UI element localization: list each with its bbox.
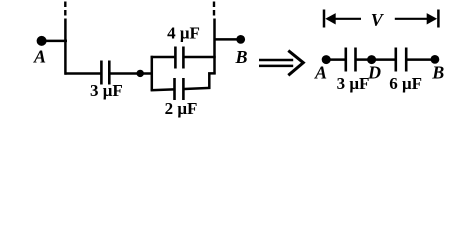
capacitor 3uF plates bbox=[100, 61, 103, 85]
wire to node B bbox=[214, 38, 238, 41]
V dimension right bar bbox=[437, 10, 440, 28]
wire right vertical lower jog bbox=[209, 73, 215, 89]
wire D to 6uF bbox=[373, 58, 395, 61]
svg-text:3 μF: 3 μF bbox=[90, 81, 123, 100]
node A (right circuit) bbox=[322, 55, 331, 64]
svg-text:4 μF: 4 μF bbox=[167, 24, 200, 43]
svg-text:D: D bbox=[367, 63, 381, 83]
wire 3uF to junction bbox=[110, 72, 138, 75]
node B (left circuit) bbox=[236, 35, 245, 44]
wire box bottom branch bbox=[151, 88, 174, 91]
svg-text:6 μF: 6 μF bbox=[389, 74, 422, 93]
node B (right circuit) bbox=[431, 55, 440, 64]
capacitor 4uF plates bbox=[174, 47, 177, 69]
wire junction to box bbox=[142, 72, 153, 75]
node D bbox=[367, 55, 376, 64]
wire 6uF to node B bbox=[407, 58, 431, 61]
capacitor 3uF plates (right circuit) bbox=[344, 48, 347, 72]
svg-text:A: A bbox=[33, 47, 46, 67]
capacitor 6uF plates bbox=[394, 48, 397, 72]
svg-text:A: A bbox=[314, 63, 327, 83]
V dimension right arrow bbox=[395, 18, 429, 20]
wire left vertical bbox=[64, 19, 67, 75]
wire 3uF to node D bbox=[357, 58, 369, 61]
V dimension left bar bbox=[323, 10, 326, 28]
wire A to 3uF bbox=[327, 58, 345, 61]
capacitor 2uF plates bbox=[173, 78, 176, 100]
wire right vertical dashed continuation bbox=[213, 2, 215, 8]
wire 2uF to box right corner bbox=[184, 88, 210, 89]
wire bottom left horizontal bbox=[65, 72, 101, 75]
wire box top branch bbox=[151, 56, 175, 59]
wire A to left vertical bbox=[44, 40, 67, 43]
svg-text:V: V bbox=[371, 10, 385, 30]
svg-text:B: B bbox=[234, 47, 247, 67]
V dimension left arrow bbox=[333, 18, 361, 20]
implies arrow bbox=[259, 51, 303, 76]
wire right vertical bbox=[213, 19, 216, 75]
wire box left vertical bbox=[151, 56, 154, 91]
svg-text:3 μF: 3 μF bbox=[337, 74, 370, 93]
svg-text:B: B bbox=[431, 63, 444, 83]
svg-text:2 μF: 2 μF bbox=[165, 99, 198, 118]
wire left vertical dashed continuation bbox=[64, 2, 66, 8]
wire 4uF to right vertical bbox=[184, 56, 215, 59]
node A (left circuit) bbox=[37, 36, 47, 46]
junction node dot bbox=[137, 70, 144, 77]
